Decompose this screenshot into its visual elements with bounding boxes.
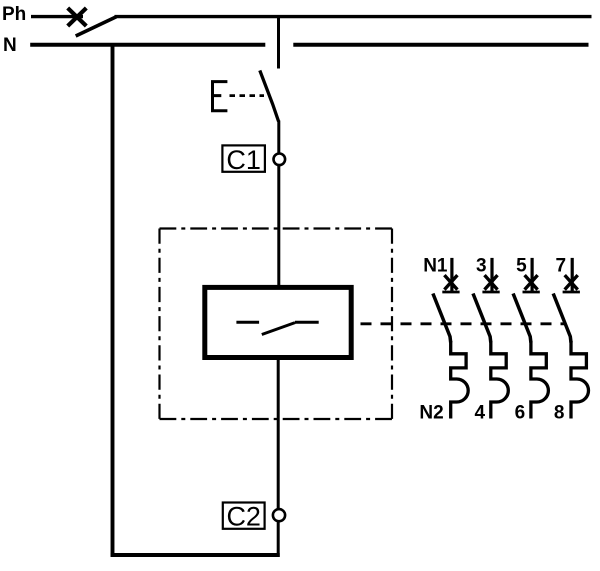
terminal line pole 2: [490, 258, 493, 292]
X marker pole 4: [565, 275, 578, 290]
svg-text:C1: C1: [226, 145, 261, 175]
fixed contact bar pole 3: [523, 291, 540, 294]
blade pole 3: [513, 294, 531, 343]
terminal line pole 1: [450, 258, 453, 292]
X marker pole 3: [525, 275, 538, 290]
wire blade to C1 terminal: [277, 121, 280, 155]
svg-text:N1: N1: [423, 256, 448, 277]
contactor coil box: [205, 287, 351, 357]
blade pole 1: [433, 294, 451, 343]
wire Ph bus right segment: [115, 15, 592, 18]
wire coil box to C2 terminal: [277, 360, 280, 510]
blade pole 4: [553, 294, 571, 343]
thermal element pole 1: [451, 341, 469, 419]
wire C2 down to return: [277, 521, 280, 557]
svg-text:7: 7: [556, 256, 567, 277]
breaker cross X on Ph line: [68, 8, 87, 26]
dashed control link to breaker poles: [361, 322, 566, 325]
wire N bus right segment: [293, 43, 588, 47]
wire C1 to coil box: [277, 165, 280, 287]
terminal circle C1: [274, 154, 286, 166]
wire drop from Ph bus: [277, 17, 280, 69]
terminal line pole 3: [530, 258, 533, 292]
wire N bus left segment: [30, 43, 265, 47]
fixed contact bar pole 2: [482, 291, 499, 294]
terminal circle C2: [273, 509, 285, 521]
label box C2: [223, 501, 265, 531]
dashed mechanical link from E: [230, 94, 265, 97]
contact symbol inside coil box: [236, 322, 318, 334]
manual actuator E: [213, 82, 228, 111]
wire bottom return: [111, 553, 280, 557]
svg-text:Ph: Ph: [2, 4, 26, 25]
thermal element pole 2: [491, 341, 509, 419]
svg-text:N2: N2: [419, 402, 443, 423]
svg-text:5: 5: [516, 256, 527, 277]
switch blade (control contact): [260, 70, 279, 121]
svg-text:C2: C2: [226, 501, 261, 531]
svg-text:8: 8: [554, 402, 565, 423]
fixed contact bar pole 4: [563, 291, 580, 294]
blade pole 2: [473, 294, 491, 343]
svg-text:6: 6: [515, 402, 526, 423]
thermal element pole 3: [531, 341, 549, 419]
wire Ph bus left segment: [31, 15, 83, 18]
switch blade on Ph line: [76, 17, 117, 36]
enclosure dash-dot boundary: [160, 229, 393, 420]
thermal element pole 4: [571, 341, 589, 419]
label box C1: [222, 145, 265, 175]
X marker pole 2: [485, 275, 498, 290]
fixed contact bar pole 1: [442, 291, 459, 294]
X marker pole 1: [444, 275, 457, 290]
wire left return vertical: [111, 45, 115, 557]
terminal line pole 4: [571, 258, 574, 292]
svg-text:N: N: [3, 35, 17, 56]
svg-text:4: 4: [475, 402, 486, 423]
svg-text:3: 3: [476, 256, 487, 277]
